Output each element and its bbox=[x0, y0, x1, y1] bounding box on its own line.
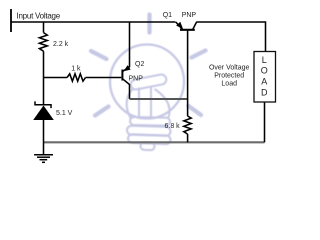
svg-text:Protected: Protected bbox=[214, 73, 244, 80]
svg-text:Over Voltage: Over Voltage bbox=[209, 65, 250, 72]
svg-text:PNP: PNP bbox=[129, 75, 144, 82]
svg-text:2.2 k: 2.2 k bbox=[53, 41, 69, 48]
svg-text:1 k: 1 k bbox=[71, 65, 81, 72]
svg-text:D: D bbox=[261, 87, 268, 97]
svg-text:Q1: Q1 bbox=[163, 12, 172, 19]
svg-text:5.1 V: 5.1 V bbox=[56, 110, 73, 117]
svg-text:L: L bbox=[262, 55, 267, 65]
svg-text:Q2: Q2 bbox=[135, 61, 144, 68]
svg-text:O: O bbox=[261, 65, 268, 75]
svg-text:PNP: PNP bbox=[182, 12, 197, 19]
svg-text:6.8 k: 6.8 k bbox=[165, 123, 181, 130]
svg-text:Load: Load bbox=[221, 80, 237, 87]
svg-text:Input Voltage: Input Voltage bbox=[17, 11, 61, 20]
svg-text:A: A bbox=[261, 77, 267, 87]
